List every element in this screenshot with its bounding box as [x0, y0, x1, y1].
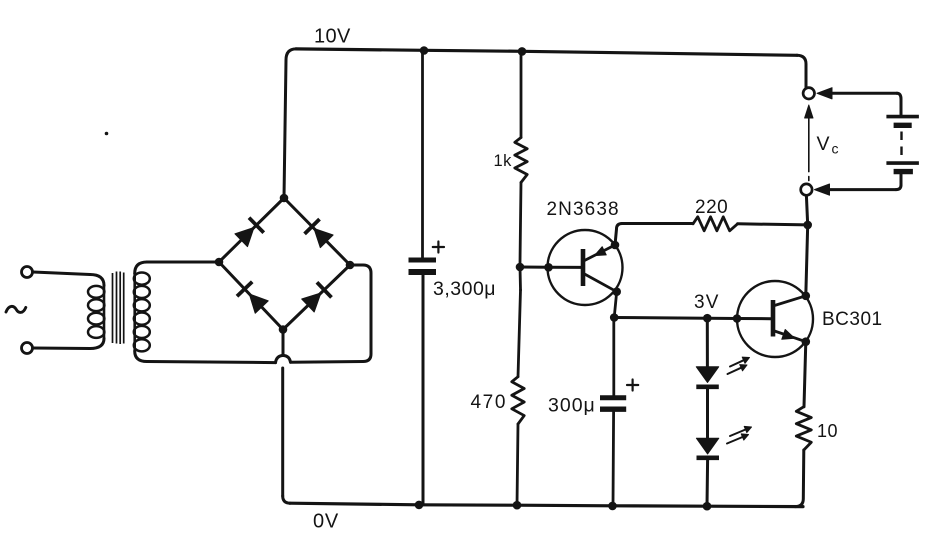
- svg-text:BC301: BC301: [822, 309, 883, 330]
- svg-text:V: V: [817, 133, 831, 155]
- svg-text:10: 10: [817, 421, 838, 441]
- svg-text:c: c: [832, 141, 840, 157]
- svg-text:0V: 0V: [313, 511, 339, 533]
- svg-text:1k: 1k: [494, 152, 513, 170]
- svg-text:470: 470: [471, 392, 508, 413]
- svg-text:10V: 10V: [314, 26, 351, 48]
- svg-text:300μ: 300μ: [548, 395, 596, 417]
- svg-text:2N3638: 2N3638: [547, 199, 620, 220]
- svg-text:3V: 3V: [694, 292, 720, 313]
- svg-text:220: 220: [695, 197, 728, 218]
- svg-text:3,300μ: 3,300μ: [433, 278, 496, 300]
